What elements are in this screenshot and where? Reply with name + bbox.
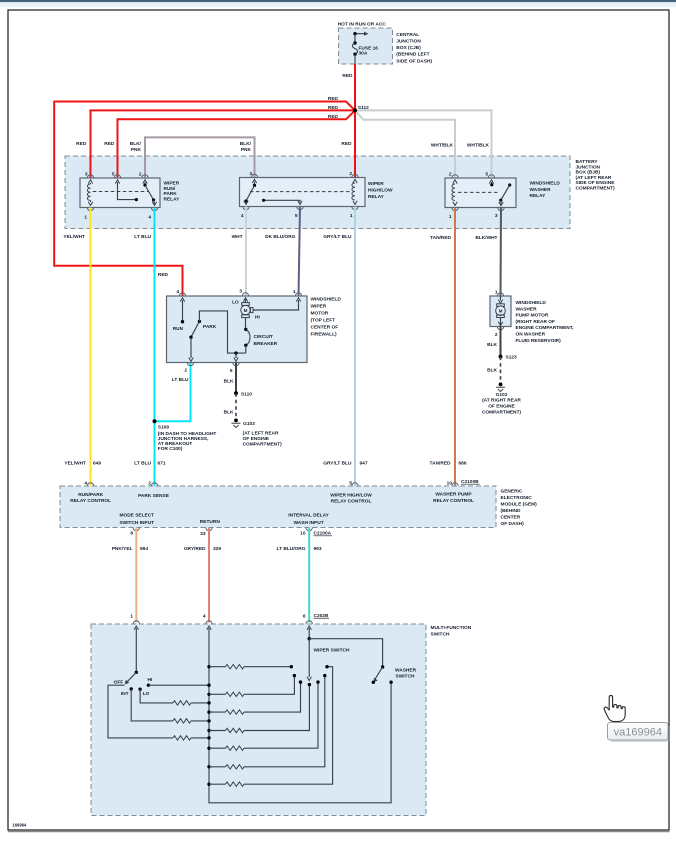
svg-text:COMPARTMENT): COMPARTMENT) xyxy=(576,186,615,192)
svg-text:MOTOR: MOTOR xyxy=(311,310,329,316)
svg-text:RED: RED xyxy=(76,141,87,147)
svg-text:BLK: BLK xyxy=(487,342,497,348)
svg-text:BLK: BLK xyxy=(224,410,234,416)
svg-text:WASHER: WASHER xyxy=(395,667,417,673)
svg-text:BLK: BLK xyxy=(487,368,497,374)
svg-text:BLK/WHT: BLK/WHT xyxy=(475,235,497,241)
svg-text:3: 3 xyxy=(495,213,498,219)
svg-text:RUN/: RUN/ xyxy=(164,186,176,192)
svg-text:WASHER PUMP: WASHER PUMP xyxy=(435,492,472,498)
svg-text:SWITCH INPUT: SWITCH INPUT xyxy=(119,520,154,526)
svg-text:BOX (BJB): BOX (BJB) xyxy=(576,170,601,176)
svg-text:PARK SENSE: PARK SENSE xyxy=(138,493,170,499)
svg-text:994: 994 xyxy=(140,546,148,552)
svg-text:649: 649 xyxy=(93,461,101,467)
svg-text:RELAY CONTROL: RELAY CONTROL xyxy=(70,498,111,504)
svg-text:(BEHIND LEFT: (BEHIND LEFT xyxy=(396,52,429,58)
svg-text:PARK: PARK xyxy=(164,191,178,197)
svg-text:BATTERY: BATTERY xyxy=(576,159,599,165)
svg-text:LT BLU: LT BLU xyxy=(134,234,151,240)
svg-text:ON WASHER: ON WASHER xyxy=(516,332,546,338)
svg-text:RUN/PARK: RUN/PARK xyxy=(78,492,103,498)
svg-text:169964: 169964 xyxy=(12,823,27,828)
svg-text:3: 3 xyxy=(249,171,252,177)
svg-text:FIREWALL): FIREWALL) xyxy=(311,331,338,337)
svg-text:671: 671 xyxy=(158,461,166,467)
svg-text:5: 5 xyxy=(112,171,115,177)
svg-text:2: 2 xyxy=(495,332,498,338)
svg-text:33: 33 xyxy=(200,531,206,537)
svg-text:INT: INT xyxy=(121,691,129,697)
svg-text:1: 1 xyxy=(350,213,353,219)
svg-text:10: 10 xyxy=(300,530,306,536)
svg-text:(IN DASH TO HEADLIGHT: (IN DASH TO HEADLIGHT xyxy=(158,431,217,437)
svg-text:4: 4 xyxy=(148,215,151,221)
svg-text:WIPER SWITCH: WIPER SWITCH xyxy=(314,647,351,653)
svg-text:YEL/WHT: YEL/WHT xyxy=(63,234,85,240)
svg-text:2: 2 xyxy=(349,171,352,177)
svg-text:RELAY: RELAY xyxy=(368,194,385,200)
svg-text:TAN/RED: TAN/RED xyxy=(430,235,451,241)
svg-text:OF ENGINE: OF ENGINE xyxy=(243,436,270,442)
svg-text:WIPER: WIPER xyxy=(368,181,384,187)
svg-text:GRY/RED: GRY/RED xyxy=(184,546,206,552)
svg-text:ENGINE COMPARTMENT,: ENGINE COMPARTMENT, xyxy=(516,325,575,331)
svg-text:RED: RED xyxy=(328,105,339,111)
svg-text:SIDE OF ENGINE: SIDE OF ENGINE xyxy=(576,180,616,186)
svg-text:1: 1 xyxy=(130,614,133,620)
svg-text:RELAY: RELAY xyxy=(530,193,547,199)
svg-text:PNK: PNK xyxy=(241,147,252,153)
svg-text:HIGH/LOW: HIGH/LOW xyxy=(368,187,393,193)
svg-text:CENTRAL: CENTRAL xyxy=(396,32,419,38)
svg-text:FLUID RESERVOIR): FLUID RESERVOIR) xyxy=(516,338,562,344)
svg-text:JUNCTION: JUNCTION xyxy=(396,39,421,45)
svg-text:RED: RED xyxy=(104,141,115,147)
svg-text:WIPER: WIPER xyxy=(164,181,180,187)
svg-text:1: 1 xyxy=(84,215,87,221)
svg-text:RETURN: RETURN xyxy=(200,519,221,525)
svg-text:(TOP LEFT: (TOP LEFT xyxy=(311,317,336,323)
svg-text:3: 3 xyxy=(85,171,88,177)
svg-text:SWITCH: SWITCH xyxy=(431,631,450,637)
svg-text:329: 329 xyxy=(213,546,221,552)
svg-text:WINDSHIELD: WINDSHIELD xyxy=(530,181,561,187)
svg-text:RED: RED xyxy=(328,96,339,102)
svg-text:BLK/: BLK/ xyxy=(130,141,142,147)
svg-text:YEL/WHT: YEL/WHT xyxy=(64,461,86,467)
svg-text:DK BLU/ORG: DK BLU/ORG xyxy=(265,234,296,240)
svg-text:30A: 30A xyxy=(359,51,368,57)
svg-text:WHT/BLK: WHT/BLK xyxy=(431,142,454,148)
svg-text:2: 2 xyxy=(449,171,452,177)
svg-text:RED: RED xyxy=(342,73,353,79)
svg-text:BLK: BLK xyxy=(224,378,234,384)
svg-text:OF DASH): OF DASH) xyxy=(501,521,525,527)
svg-text:WINDSHIELD: WINDSHIELD xyxy=(311,296,342,302)
svg-text:G103: G103 xyxy=(243,421,255,427)
svg-text:COMPARTMENT): COMPARTMENT) xyxy=(482,409,521,415)
svg-text:GRY/LT BLU: GRY/LT BLU xyxy=(323,461,352,467)
svg-text:686: 686 xyxy=(459,461,467,467)
svg-text:va169964: va169964 xyxy=(614,727,662,739)
svg-text:RED: RED xyxy=(328,114,339,120)
svg-text:MODULE (GEM): MODULE (GEM) xyxy=(501,501,538,507)
svg-text:SWITCH: SWITCH xyxy=(396,674,415,680)
svg-text:RED: RED xyxy=(158,272,169,278)
svg-text:947: 947 xyxy=(360,461,368,467)
svg-text:RELAY CONTROL: RELAY CONTROL xyxy=(331,499,372,505)
svg-text:LO: LO xyxy=(143,691,150,697)
svg-text:2: 2 xyxy=(148,480,151,486)
svg-text:2: 2 xyxy=(184,367,187,373)
svg-text:993: 993 xyxy=(314,546,322,552)
svg-text:LT BLU: LT BLU xyxy=(134,461,151,467)
svg-text:1: 1 xyxy=(495,289,498,295)
svg-text:PUMP MOTOR: PUMP MOTOR xyxy=(516,313,549,319)
svg-text:8: 8 xyxy=(130,530,133,536)
svg-text:4: 4 xyxy=(84,480,87,486)
svg-text:LO: LO xyxy=(232,299,239,305)
svg-text:BOX (CJB): BOX (CJB) xyxy=(396,45,421,51)
svg-text:FOR C100): FOR C100) xyxy=(158,446,183,452)
svg-text:JUNCTION: JUNCTION xyxy=(576,164,601,170)
svg-text:MODE SELECT: MODE SELECT xyxy=(119,513,154,519)
svg-text:M: M xyxy=(244,308,248,313)
svg-text:BLK/: BLK/ xyxy=(240,141,252,147)
svg-text:(AT LEFT REAR: (AT LEFT REAR xyxy=(576,175,612,181)
svg-text:G102: G102 xyxy=(496,392,508,398)
svg-text:COMPARTMENT): COMPARTMENT) xyxy=(243,442,282,448)
svg-text:4: 4 xyxy=(203,614,206,620)
svg-text:1: 1 xyxy=(449,214,452,220)
svg-text:2: 2 xyxy=(139,171,142,177)
svg-text:PARK: PARK xyxy=(203,324,217,330)
svg-text:5: 5 xyxy=(295,213,298,219)
svg-text:WHT/BLK: WHT/BLK xyxy=(467,142,490,148)
svg-text:WASHER: WASHER xyxy=(516,306,538,312)
svg-text:AT BREAKOUT: AT BREAKOUT xyxy=(158,441,193,447)
svg-text:(AT RIGHT REAR: (AT RIGHT REAR xyxy=(482,398,521,404)
svg-text:S110: S110 xyxy=(241,391,252,397)
svg-text:3: 3 xyxy=(239,289,242,295)
svg-text:RELAY CONTROL: RELAY CONTROL xyxy=(433,498,474,504)
svg-text:INTERVAL DELAY: INTERVAL DELAY xyxy=(288,513,329,519)
svg-text:OF ENGINE: OF ENGINE xyxy=(488,404,515,410)
svg-text:JUNCTION HARNESS,: JUNCTION HARNESS, xyxy=(158,436,209,442)
svg-text:PNK: PNK xyxy=(131,147,142,153)
svg-text:CIRCUIT: CIRCUIT xyxy=(254,334,274,340)
svg-text:RED: RED xyxy=(341,141,352,147)
svg-text:HOT IN RUN OR ACC: HOT IN RUN OR ACC xyxy=(338,22,387,28)
svg-text:5: 5 xyxy=(485,171,488,177)
svg-text:BREAKER: BREAKER xyxy=(254,341,278,347)
svg-text:WIPER HIGH/LOW: WIPER HIGH/LOW xyxy=(330,493,372,499)
svg-text:10: 10 xyxy=(447,480,453,486)
svg-text:RELAY: RELAY xyxy=(164,196,181,202)
svg-text:SIDE OF DASH): SIDE OF DASH) xyxy=(396,58,432,64)
svg-text:CENTER OF: CENTER OF xyxy=(311,324,339,330)
svg-text:WASHER: WASHER xyxy=(530,187,552,193)
svg-text:WASH INPUT: WASH INPUT xyxy=(294,520,324,526)
svg-text:LT BLU/ORG: LT BLU/ORG xyxy=(277,546,306,552)
svg-text:CENTER: CENTER xyxy=(501,514,521,520)
svg-text:M: M xyxy=(499,309,503,314)
svg-text:S123: S123 xyxy=(506,355,518,361)
svg-text:PNK/YEL: PNK/YEL xyxy=(112,546,133,552)
svg-text:5: 5 xyxy=(349,480,352,486)
svg-text:WHT: WHT xyxy=(232,234,243,240)
svg-text:6: 6 xyxy=(303,614,306,620)
svg-text:S112: S112 xyxy=(358,105,369,111)
svg-text:WINDSHIELD: WINDSHIELD xyxy=(516,300,547,306)
svg-text:ELECTRONIC: ELECTRONIC xyxy=(501,495,533,501)
svg-text:1: 1 xyxy=(293,289,296,295)
svg-text:WIPER: WIPER xyxy=(311,303,327,309)
svg-text:(BEHIND: (BEHIND xyxy=(501,508,522,514)
svg-text:RUN: RUN xyxy=(173,326,184,332)
svg-text:HI: HI xyxy=(148,677,153,683)
svg-text:HI: HI xyxy=(255,314,260,320)
svg-text:(RIGHT REAR OF: (RIGHT REAR OF xyxy=(516,319,556,325)
svg-text:GRY/LT BLU: GRY/LT BLU xyxy=(323,234,352,240)
svg-text:GENERIC: GENERIC xyxy=(501,488,523,494)
svg-text:5: 5 xyxy=(230,368,233,374)
svg-text:TAN/RED: TAN/RED xyxy=(430,461,451,467)
svg-text:MULTI-FUNCTION: MULTI-FUNCTION xyxy=(431,625,472,631)
svg-text:LT BLU: LT BLU xyxy=(172,377,189,383)
svg-text:S109: S109 xyxy=(158,424,170,430)
svg-text:(AT LEFT REAR: (AT LEFT REAR xyxy=(243,431,279,437)
svg-text:4: 4 xyxy=(241,213,244,219)
svg-text:4: 4 xyxy=(176,289,179,295)
